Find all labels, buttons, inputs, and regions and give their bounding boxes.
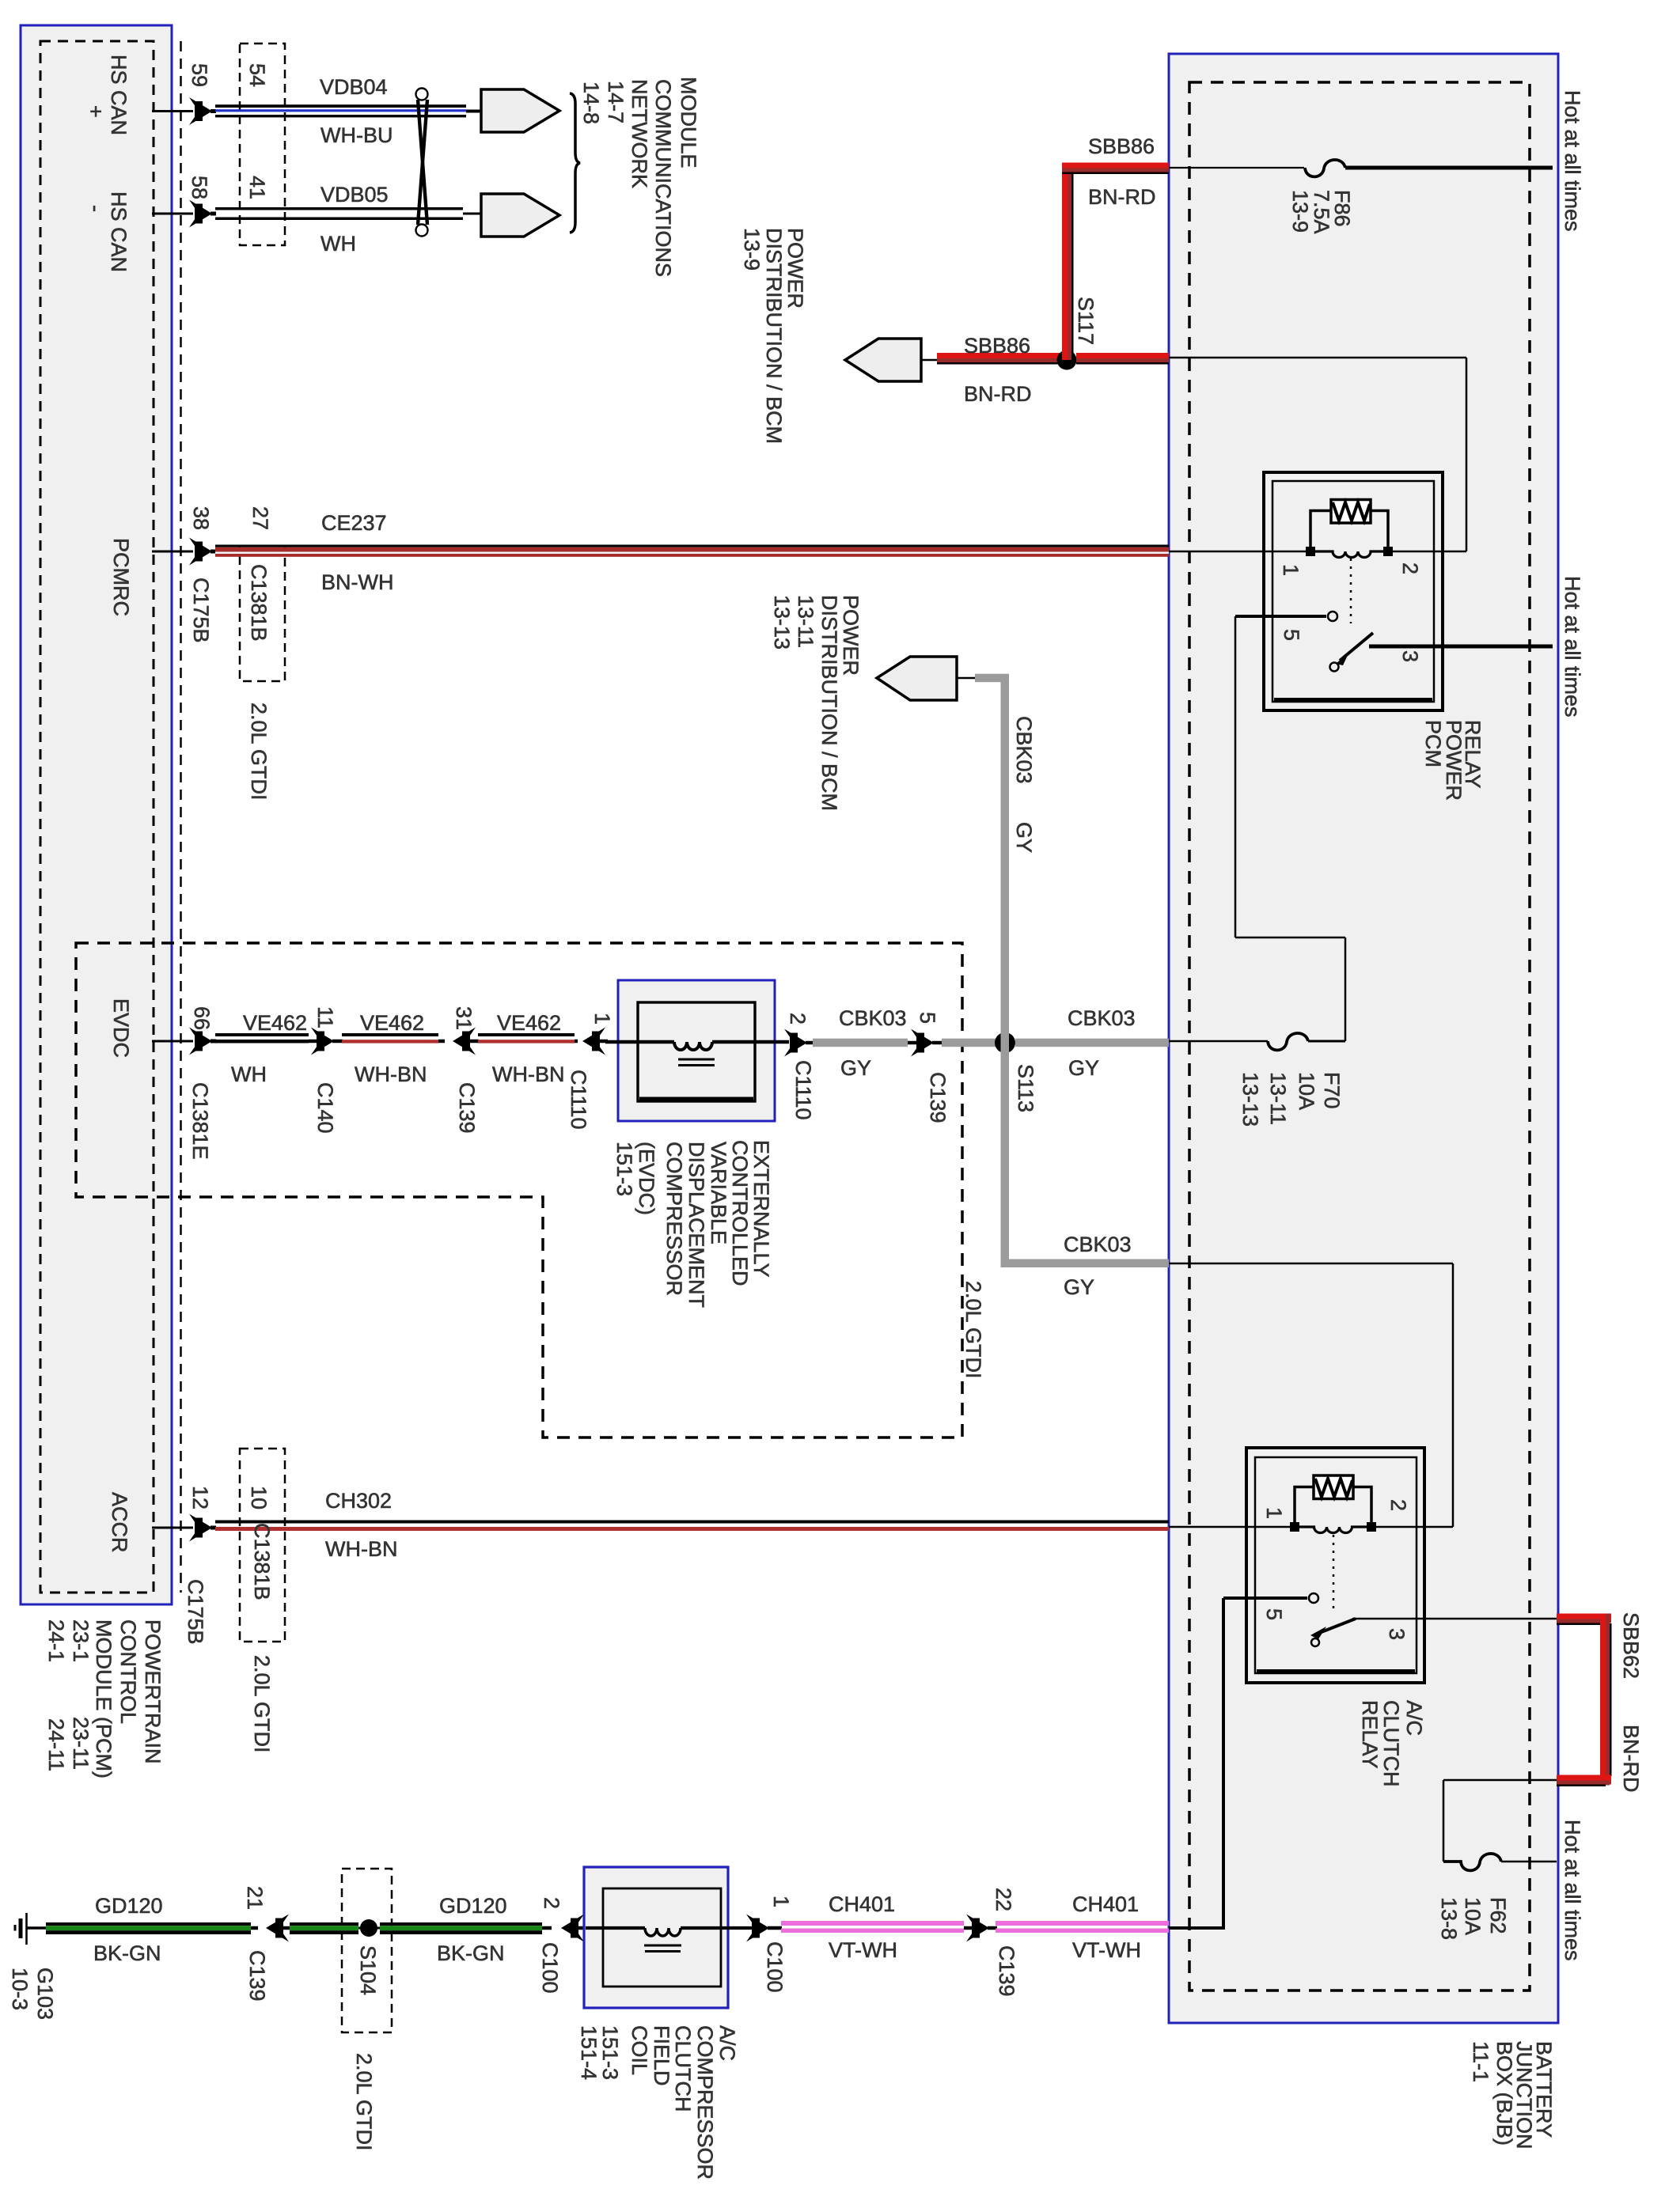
svg-text:12: 12	[188, 1486, 212, 1509]
svg-text:2.0L GTDI: 2.0L GTDI	[247, 703, 271, 801]
wire label SBB86 BN-RD top	[1088, 134, 1156, 209]
label PCM POWER RELAY	[1421, 720, 1485, 801]
svg-text:14-7: 14-7	[604, 81, 628, 123]
splice S104 junction dot	[360, 1919, 377, 1937]
svg-text:CLUTCH: CLUTCH	[1379, 1700, 1403, 1787]
svg-text:Hot at all times: Hot at all times	[1561, 1820, 1584, 1961]
relay A/C CLUTCH RELAY box	[1246, 1448, 1424, 1683]
svg-text:14-8: 14-8	[579, 81, 603, 124]
svg-text:VARIABLE: VARIABLE	[707, 1142, 730, 1244]
svg-text:POWER: POWER	[783, 228, 807, 309]
svg-text:C1381B: C1381B	[250, 1523, 274, 1600]
wire labels CBK03 GY row	[839, 1006, 1136, 1080]
fuse F86 7.5A line and element	[1169, 160, 1553, 176]
pin numbers 59 54 58 41	[188, 63, 269, 199]
svg-text:RELAY: RELAY	[1461, 720, 1485, 789]
svg-text:COMPRESSOR: COMPRESSOR	[693, 2025, 717, 2180]
svg-text:CONTROL: CONTROL	[116, 1619, 140, 1724]
svg-text:S113: S113	[1014, 1064, 1037, 1112]
svg-text:CLUTCH: CLUTCH	[671, 2025, 695, 2112]
splice S117 junction dot	[1057, 350, 1077, 370]
dashed region 2.0L GTDI around EVDC circuit	[76, 943, 962, 1437]
svg-text:5: 5	[1280, 629, 1303, 641]
pin 12 10 and connector labels ACCR row	[184, 1486, 274, 1753]
svg-text:66: 66	[190, 1006, 214, 1030]
PCM power relay switch	[1235, 559, 1553, 672]
svg-text:C175B: C175B	[189, 578, 213, 643]
fuse F70 label	[1238, 1072, 1344, 1127]
svg-text:22: 22	[992, 1888, 1015, 1911]
svg-text:C139: C139	[245, 1950, 269, 2002]
relay pin numbers A/C clutch relay	[1262, 1499, 1410, 1640]
svg-text:COIL: COIL	[628, 2025, 651, 2075]
EVDC pin 2 connector arrow	[784, 1029, 814, 1057]
svg-text:HS CAN: HS CAN	[107, 191, 131, 272]
svg-text:C100: C100	[763, 1941, 787, 1993]
field coil symbol	[586, 1928, 753, 1952]
svg-text:C1381B: C1381B	[247, 564, 271, 642]
svg-text:EVDC: EVDC	[109, 998, 133, 1058]
svg-text:1: 1	[769, 1896, 793, 1907]
A/C clutch relay resistor	[1295, 1475, 1371, 1527]
svg-text:BK-GN: BK-GN	[93, 1941, 161, 1965]
in-line connector C139 arrow (left) pin 21	[251, 1915, 291, 1942]
wire VDB04 WH-BU	[215, 104, 466, 117]
svg-text:C100: C100	[538, 1942, 562, 1994]
pin 12 ACCR stub	[152, 1514, 216, 1542]
ground G103	[15, 1913, 47, 1945]
svg-text:C1381E: C1381E	[188, 1082, 212, 1160]
svg-text:C175B: C175B	[184, 1579, 207, 1645]
svg-text:Hot at all times: Hot at all times	[1561, 576, 1584, 718]
svg-text:27: 27	[248, 506, 272, 530]
node HS CAN - label	[84, 191, 131, 272]
PCM power relay resistor	[1310, 500, 1388, 552]
svg-text:WH: WH	[231, 1062, 267, 1086]
svg-text:BN-WH: BN-WH	[321, 570, 393, 594]
svg-text:2.0L GTDI: 2.0L GTDI	[352, 2053, 376, 2151]
svg-text:2: 2	[1398, 562, 1422, 574]
svg-text:54: 54	[245, 63, 269, 87]
svg-text:WH-BN: WH-BN	[492, 1062, 564, 1086]
relay pin numbers PCM power relay	[1279, 562, 1422, 662]
wire VE462 WH-BN segment 2	[342, 1033, 438, 1044]
svg-text:CBK03: CBK03	[1068, 1006, 1136, 1030]
in-line connector C139 arrow pin 5	[908, 1029, 942, 1057]
svg-text:S117: S117	[1074, 297, 1098, 345]
svg-text:13-13: 13-13	[770, 595, 794, 650]
svg-text:POWER: POWER	[839, 595, 863, 676]
module box PCM (Powertrain Control Module)	[21, 25, 172, 1604]
svg-text:11: 11	[313, 1006, 337, 1028]
wire CH401 VT-WH segment 2	[996, 1921, 1169, 1933]
splice S113 junction dot	[995, 1032, 1015, 1053]
svg-text:WH-BU: WH-BU	[320, 123, 393, 147]
off-page connector arrow VDB04	[466, 89, 559, 132]
wire SBB86 BN-RD top horizontal to BJB	[1062, 163, 1169, 175]
svg-text:+: +	[84, 105, 108, 118]
svg-text:BOX (BJB): BOX (BJB)	[1492, 2041, 1516, 2146]
svg-text:13-13: 13-13	[1238, 1072, 1262, 1127]
wire SBB86 BN-RD horizontal from BCM to splice S117	[937, 353, 1071, 365]
wire VE462 WH segment 1	[215, 1033, 309, 1044]
svg-text:7.5A: 7.5A	[1310, 190, 1333, 234]
wire CBK03 GY vertical from BCM arrow to S113 and down	[975, 674, 1009, 1263]
in-line connector C100 arrow (left) pin 2	[542, 1915, 587, 1942]
svg-text:23-11: 23-11	[69, 1717, 93, 1770]
svg-text:VE462: VE462	[360, 1011, 424, 1035]
pin 58 HS CAN- stub	[152, 200, 216, 228]
svg-text:VE462: VE462	[243, 1011, 307, 1035]
svg-text:DISTRIBUTION / BCM: DISTRIBUTION / BCM	[817, 595, 841, 811]
wire CBK03 GY lower horizontal to BJB	[1001, 1259, 1170, 1268]
pin 59 HS CAN+ stub	[152, 97, 216, 125]
wire CE237 inside BJB to relay pin 1	[1169, 551, 1310, 553]
svg-text:10: 10	[247, 1486, 271, 1509]
svg-text:C140: C140	[313, 1082, 337, 1134]
svg-text:PCMRC: PCMRC	[109, 538, 133, 616]
svg-text:1: 1	[1262, 1507, 1286, 1519]
wire from S117 into BJB to PCM power relay pin 2	[1169, 358, 1466, 551]
svg-text:5: 5	[1262, 1608, 1286, 1620]
fuse F62 10A line and element	[1443, 1780, 1557, 1870]
svg-text:MODULE: MODULE	[677, 77, 700, 169]
node HS CAN + label	[84, 55, 131, 135]
svg-text:C1110: C1110	[567, 1070, 590, 1130]
wire label SBB62 BN-RD	[1619, 1612, 1643, 1793]
svg-text:C1110: C1110	[791, 1060, 815, 1120]
wire GD120 BK-GN segment 2	[290, 1922, 362, 1934]
svg-text:COMPRESSOR: COMPRESSOR	[662, 1142, 686, 1296]
fuse F86 label	[1288, 190, 1354, 234]
svg-text:NETWORK: NETWORK	[628, 79, 651, 188]
svg-text:G103: G103	[33, 1968, 57, 2020]
svg-text:PCM: PCM	[1421, 720, 1445, 767]
svg-text:SBB86: SBB86	[964, 334, 1030, 358]
svg-text:POWERTRAIN: POWERTRAIN	[141, 1619, 165, 1764]
wire GD120 BK-GN segment 3	[377, 1922, 542, 1934]
svg-text:13-9: 13-9	[740, 228, 764, 271]
svg-text:151-3: 151-3	[613, 1142, 636, 1196]
A/C clutch relay switch	[1223, 1535, 1557, 1646]
label power distribution / BCM 13-11 13-13	[770, 595, 863, 811]
svg-text:RELAY: RELAY	[1358, 1700, 1382, 1769]
svg-text:3: 3	[1385, 1628, 1409, 1640]
svg-text:VT-WH: VT-WH	[829, 1938, 897, 1962]
pin numbers 38 27 and connectors	[189, 506, 272, 801]
svg-text:41: 41	[245, 176, 269, 199]
wire VE462 WH-BN segment 3	[478, 1033, 575, 1044]
svg-text:10A: 10A	[1295, 1072, 1318, 1110]
svg-text:13-11: 13-11	[1266, 1072, 1290, 1125]
EVDC coil symbol	[605, 1042, 789, 1066]
svg-text:WH-BN: WH-BN	[325, 1537, 397, 1561]
pin 38 PCMRC stub	[152, 538, 216, 566]
component A/C compressor clutch field coil box	[584, 1867, 728, 2008]
svg-text:A/C: A/C	[715, 2025, 739, 2061]
svg-text:CE237: CE237	[321, 511, 387, 535]
wire CE237 BN-WH	[215, 545, 1169, 557]
wire CBK03 GY segment 1	[813, 1039, 908, 1047]
pin 66 and EVDC row connector labels	[188, 1006, 950, 1160]
svg-text:BK-GN: BK-GN	[437, 1941, 505, 1965]
svg-text:151-3: 151-3	[598, 2025, 622, 2080]
wire SBB86 BN-RD vertical	[1062, 168, 1074, 360]
svg-text:DISPLACEMENT: DISPLACEMENT	[685, 1142, 708, 1308]
power distribution / BCM 13-9 connector arrow	[845, 339, 937, 381]
svg-text:SBB86: SBB86	[1088, 134, 1155, 158]
svg-text:CH401: CH401	[1072, 1892, 1139, 1916]
svg-text:F62: F62	[1486, 1897, 1510, 1934]
svg-text:23-1: 23-1	[69, 1619, 93, 1662]
svg-text:DISTRIBUTION / BCM: DISTRIBUTION / BCM	[762, 228, 786, 444]
svg-text:GD120: GD120	[439, 1894, 507, 1918]
svg-text:10A: 10A	[1461, 1897, 1485, 1935]
label power distribution / BCM 13-9	[740, 228, 807, 444]
svg-text:CBK03: CBK03	[1064, 1233, 1132, 1256]
in-line connector C140 arrow	[309, 1028, 343, 1055]
svg-text:59: 59	[188, 63, 211, 87]
connector C1381B dashed box middle	[240, 546, 285, 681]
svg-text:GY: GY	[1012, 822, 1036, 853]
svg-text:151-4: 151-4	[577, 2025, 601, 2080]
connector labels bottom row	[243, 1886, 1018, 2151]
svg-text:2.0L GTDI: 2.0L GTDI	[961, 1281, 985, 1379]
svg-text:2.0L GTDI: 2.0L GTDI	[250, 1655, 274, 1753]
svg-text:21: 21	[243, 1886, 267, 1910]
wire label CH302 WH-BN	[325, 1489, 397, 1561]
wire GD120 BK-GN segment 1	[46, 1922, 251, 1934]
svg-text:13-11: 13-11	[794, 595, 817, 648]
wire VDB05 WH	[215, 207, 463, 220]
svg-text:Hot at all times: Hot at all times	[1561, 90, 1584, 232]
svg-text:CBK03: CBK03	[1012, 716, 1036, 784]
svg-text:F70: F70	[1320, 1072, 1344, 1109]
svg-text:VE462: VE462	[497, 1011, 561, 1035]
wire CBK03 inside BJB to A/C clutch relay pin 2	[1169, 1263, 1453, 1527]
svg-text:WH: WH	[320, 232, 356, 256]
svg-text:3: 3	[1398, 650, 1422, 662]
pin 66 EVDC stub	[152, 1028, 216, 1055]
wire SBB62 BN-RD u-shape	[1557, 1614, 1612, 1787]
svg-text:(EVDC): (EVDC)	[635, 1142, 658, 1215]
svg-text:38: 38	[189, 506, 213, 530]
wire SBB86 to S117 lower from dot to BJB	[1076, 353, 1169, 365]
svg-text:A/C: A/C	[1402, 1700, 1426, 1736]
ground G103 label	[8, 1968, 57, 2020]
svg-text:FIELD: FIELD	[650, 2025, 673, 2086]
in-line connector C139 arrow (left)	[438, 1028, 479, 1055]
splice S104 dashed box	[342, 1869, 392, 2032]
wire label CE237 BN-WH	[321, 511, 393, 594]
svg-text:31: 31	[452, 1006, 476, 1030]
svg-text:HS CAN: HS CAN	[107, 55, 131, 135]
svg-text:GY: GY	[1068, 1056, 1099, 1080]
svg-text:CH302: CH302	[325, 1489, 392, 1513]
wire CH401 VT-WH segment 1	[781, 1921, 964, 1933]
label PCM module name	[44, 1619, 165, 1778]
svg-text:C139: C139	[455, 1082, 479, 1134]
fuse F70 10A element	[1169, 1033, 1345, 1050]
svg-text:CH401: CH401	[829, 1892, 895, 1916]
PCM power relay coil	[1306, 547, 1393, 558]
svg-text:VT-WH: VT-WH	[1072, 1938, 1141, 1962]
svg-text:2: 2	[540, 1897, 563, 1909]
wire labels CH401 VT-WH	[829, 1892, 1141, 1962]
fuse F62 label	[1437, 1897, 1510, 1940]
brace for module communications network	[570, 93, 580, 233]
svg-text:C139: C139	[995, 1945, 1018, 1997]
svg-text:-: -	[84, 205, 108, 212]
connector C1381B dashed box bottom	[240, 1449, 285, 1642]
wire A/C relay pin 5 down to CH401	[1169, 1598, 1225, 1928]
A/C clutch relay coil	[1290, 1522, 1376, 1533]
svg-text:WH-BN: WH-BN	[355, 1062, 427, 1086]
wire CH302 inside BJB to A/C clutch relay pin 1	[1169, 1526, 1295, 1528]
svg-text:2: 2	[786, 1013, 810, 1025]
svg-text:C139: C139	[926, 1072, 950, 1123]
svg-text:58: 58	[188, 176, 211, 199]
wire label VDB05 WH	[320, 183, 389, 256]
svg-text:GY: GY	[1064, 1275, 1094, 1299]
svg-text:EXTERNALLY: EXTERNALLY	[749, 1140, 773, 1278]
svg-text:BN-RD: BN-RD	[964, 382, 1032, 406]
svg-text:11-1: 11-1	[1469, 2041, 1492, 2082]
svg-text:10-3: 10-3	[8, 1968, 32, 2010]
svg-text:1: 1	[590, 1013, 614, 1025]
off-page connector arrow VDB05	[463, 194, 559, 237]
field coil pin 1 connector arrow	[746, 1915, 782, 1942]
in-line connector C139 arrow pin 22	[964, 1915, 997, 1942]
svg-text:13-9: 13-9	[1288, 190, 1312, 233]
svg-text:GD120: GD120	[95, 1894, 163, 1918]
svg-text:CBK03: CBK03	[839, 1006, 907, 1030]
svg-text:COMMUNICATIONS: COMMUNICATIONS	[651, 79, 675, 277]
wire labels GD120 BK-GN	[93, 1894, 507, 1965]
wire label VDB04 WH-BU	[320, 75, 393, 147]
svg-text:5: 5	[916, 1012, 939, 1024]
in-line connector C1110 arrow (left)	[575, 1028, 608, 1055]
wire CBK03 GY segment 2	[942, 1039, 996, 1047]
svg-text:CONTROLLED: CONTROLLED	[728, 1140, 752, 1286]
svg-text:BN-RD: BN-RD	[1619, 1725, 1643, 1793]
svg-text:GY: GY	[840, 1056, 871, 1080]
wire relay pin5 to fuse F70	[1235, 616, 1345, 1041]
svg-text:VDB04: VDB04	[320, 75, 388, 99]
svg-text:VDB05: VDB05	[320, 183, 389, 206]
svg-text:1: 1	[1279, 564, 1303, 576]
svg-text:13-8: 13-8	[1437, 1897, 1461, 1940]
svg-text:MODULE (PCM): MODULE (PCM)	[92, 1619, 116, 1778]
svg-text:2: 2	[1386, 1499, 1410, 1511]
relay PCM POWER RELAY box	[1264, 472, 1443, 710]
connector C1381B dashed box top	[240, 44, 285, 245]
svg-text:BN-RD: BN-RD	[1088, 185, 1156, 209]
svg-text:24-1: 24-1	[44, 1619, 68, 1662]
svg-text:S104: S104	[356, 1945, 380, 1995]
power distribution / BCM 13-11 13-13 connector arrow	[877, 657, 978, 700]
label EVDC compressor name	[613, 1140, 773, 1308]
label battery junction box	[1469, 2041, 1556, 2150]
label A/C CLUTCH RELAY	[1358, 1700, 1426, 1787]
svg-text:SBB62: SBB62	[1619, 1612, 1643, 1679]
wire label SBB86 BN-RD at S117	[964, 334, 1032, 406]
twisted pair symbol	[416, 89, 429, 237]
label A/C compressor clutch field coil	[577, 2025, 739, 2180]
module box BJB (Battery Junction Box)	[1169, 54, 1558, 2023]
wire label CBK03 GY vertical	[1012, 716, 1036, 853]
component EVDC compressor box	[618, 980, 775, 1121]
svg-text:24-11: 24-11	[44, 1718, 68, 1771]
wire CH302 WH-BN	[215, 1521, 1169, 1532]
wire label CBK03 GY lower	[1064, 1233, 1132, 1299]
svg-text:ACCR: ACCR	[108, 1492, 131, 1553]
wire labels VE462 segments	[231, 1011, 564, 1086]
connector C175B dashed line	[180, 41, 182, 1593]
wire CBK03 GY segment 3 to BJB	[1015, 1039, 1169, 1047]
label module communications network	[579, 77, 700, 277]
